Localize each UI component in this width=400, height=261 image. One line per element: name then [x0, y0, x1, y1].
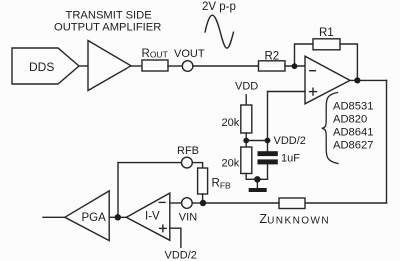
svg-text:ZUNKNOWN: ZUNKNOWN — [260, 212, 331, 227]
svg-text:VDD/2: VDD/2 — [165, 250, 197, 261]
svg-text:AD8641: AD8641 — [333, 126, 373, 138]
svg-text:AD820: AD820 — [333, 113, 367, 125]
svg-text:2V p-p: 2V p-p — [202, 1, 236, 13]
svg-text:RFB: RFB — [177, 145, 199, 157]
svg-text:I-V: I-V — [145, 211, 160, 223]
svg-text:VDD: VDD — [235, 81, 258, 93]
svg-text:VIN: VIN — [179, 212, 197, 224]
svg-text:R2: R2 — [265, 51, 280, 63]
svg-text:DDS: DDS — [29, 60, 54, 74]
svg-text:R1: R1 — [319, 27, 334, 39]
svg-text:RFB: RFB — [212, 177, 232, 190]
svg-text:OUTPUT AMPLIFIER: OUTPUT AMPLIFIER — [54, 22, 161, 34]
svg-text:20k: 20k — [222, 158, 240, 170]
svg-text:ROUT: ROUT — [142, 48, 168, 60]
svg-text:PGA: PGA — [82, 212, 107, 224]
svg-text:VDD/2: VDD/2 — [274, 135, 306, 147]
svg-text:AD8531: AD8531 — [333, 101, 373, 113]
svg-text:AD8627: AD8627 — [333, 140, 373, 152]
svg-text:20k: 20k — [222, 117, 240, 129]
svg-text:VOUT: VOUT — [174, 48, 205, 60]
svg-text:1uF: 1uF — [281, 153, 300, 165]
svg-text:TRANSMIT SIDE: TRANSMIT SIDE — [66, 10, 152, 22]
